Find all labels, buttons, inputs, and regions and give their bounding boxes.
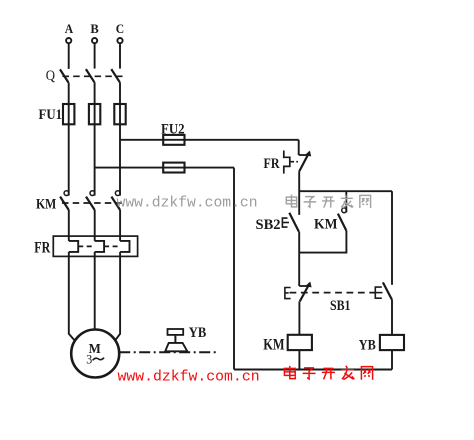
coil KM rectangle bbox=[288, 335, 312, 350]
pushbutton SB1 linkage dashed line bbox=[290, 292, 375, 294]
watermark red chinese 电子开发网 bbox=[284, 366, 372, 380]
wire B from terminal to switch Q bbox=[94, 43, 96, 68]
svg-text:3: 3 bbox=[86, 352, 92, 366]
node B terminal bbox=[90, 22, 99, 43]
wire branch to KM aux and right rail bbox=[299, 190, 392, 192]
svg-text:KM: KM bbox=[314, 216, 338, 232]
pushbutton SB1 right NO contact bbox=[375, 282, 392, 299]
switch Q pole A blade bbox=[60, 69, 69, 82]
wire C FR to motor bbox=[115, 252, 120, 341]
svg-text:YB: YB bbox=[189, 325, 207, 341]
pushbutton SB2 NO contact bbox=[282, 213, 298, 232]
wire SB2 to SB1 left bbox=[298, 232, 300, 287]
switch Q linkage dashed line bbox=[63, 75, 125, 77]
coil YB rectangle bbox=[380, 335, 404, 350]
wire B FR to motor bbox=[94, 252, 96, 329]
motor M circle bbox=[71, 330, 119, 378]
svg-text:SB2: SB2 bbox=[256, 217, 281, 233]
wire SB1 left to KM coil bbox=[298, 301, 300, 334]
svg-text:A: A bbox=[65, 22, 73, 36]
svg-text:www.dzkfw.com.cn: www.dzkfw.com.cn bbox=[118, 370, 260, 386]
pushbutton SB1 left NC contact bbox=[299, 282, 311, 302]
wire KM coil to bottom rail bbox=[298, 350, 300, 369]
brake YB magnet rectangle bbox=[168, 329, 184, 335]
svg-text:B: B bbox=[90, 22, 99, 36]
brake YB shoe trapezoid bbox=[165, 343, 187, 351]
svg-text:KM: KM bbox=[36, 197, 56, 213]
svg-text:C: C bbox=[116, 22, 124, 36]
contactor KM main contact A bbox=[60, 191, 69, 210]
svg-text:SB1: SB1 bbox=[330, 298, 351, 314]
wire branch B to FU2 lower bbox=[95, 167, 234, 169]
wire C from terminal to switch Q bbox=[119, 43, 121, 68]
wire A from terminal to switch Q bbox=[68, 43, 70, 69]
relay FR actuator bracket bbox=[284, 151, 290, 174]
relay FR actuator dash bbox=[291, 161, 299, 163]
svg-text:Q: Q bbox=[46, 68, 56, 84]
wire B from Q to KM contact bbox=[94, 82, 96, 195]
wire FU2 down to FR contact bbox=[298, 140, 300, 155]
wire bottom rail bbox=[234, 369, 392, 371]
wire C from Q to KM contact bbox=[119, 82, 121, 195]
wire FR contact to SB2 bbox=[298, 171, 300, 215]
thermal relay FR box bbox=[53, 236, 137, 256]
wire A KM to FR box bbox=[68, 210, 70, 241]
fuse FU1 phase C bbox=[114, 104, 125, 124]
wire KM aux down and back to rail bbox=[299, 231, 346, 253]
thermal relay FR heater A bbox=[69, 241, 78, 252]
contactor KM aux contact bbox=[338, 208, 347, 231]
node C terminal bbox=[116, 22, 124, 43]
switch Q pole B blade bbox=[86, 69, 95, 82]
wire branch C to FU2 upper bbox=[120, 139, 299, 141]
wire SB1 right to YB coil bbox=[391, 300, 393, 335]
thermal relay FR heater B bbox=[95, 241, 104, 252]
watermark gray chinese 电子开发网 bbox=[286, 194, 370, 208]
wire right rail down to SB1 right bbox=[391, 191, 393, 285]
wire YB coil to bottom rail bbox=[391, 350, 393, 369]
wire branch down to KM aux bbox=[345, 191, 347, 212]
wire B KM to FR box bbox=[94, 210, 96, 241]
svg-text:YB: YB bbox=[359, 338, 376, 354]
wire left rail of control circuit bbox=[233, 168, 235, 370]
switch Q pole C blade bbox=[111, 69, 120, 82]
wire C KM to FR box bbox=[119, 210, 121, 241]
fuse FU1 phase B bbox=[89, 104, 100, 124]
wire A FR to motor bbox=[69, 252, 75, 341]
svg-text:www.dzkfw.com.cn: www.dzkfw.com.cn bbox=[117, 196, 258, 212]
pushbutton SB1 left actuator E bbox=[285, 288, 291, 299]
svg-text:FU1: FU1 bbox=[39, 107, 63, 123]
contactor KM main linkage dashed line bbox=[62, 202, 123, 204]
svg-text:FR: FR bbox=[264, 156, 280, 172]
shaft dash-dot line motor to brake bbox=[119, 351, 217, 353]
contactor KM main contact B bbox=[86, 191, 95, 210]
thermal relay FR linkage dashes bbox=[78, 245, 95, 247]
fuse FU2 lower bbox=[163, 163, 184, 173]
wire A from Q to KM contact bbox=[68, 83, 70, 196]
fuse FU2 upper bbox=[163, 135, 184, 145]
svg-text:FR: FR bbox=[34, 239, 50, 256]
fuse FU1 phase A bbox=[63, 104, 74, 124]
brake YB stem bbox=[174, 335, 176, 343]
svg-text:KM: KM bbox=[263, 336, 285, 353]
relay FR NC contact bbox=[299, 151, 312, 172]
node A terminal bbox=[65, 22, 73, 43]
contactor KM main contact C bbox=[111, 191, 120, 210]
thermal relay FR heater C bbox=[120, 241, 129, 252]
